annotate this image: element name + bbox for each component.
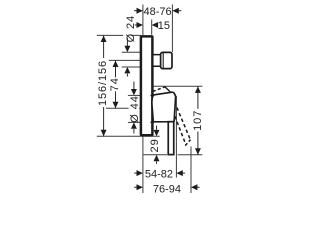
dim 76-94: right arrow (191, 184, 197, 190)
knob centerline (y=60.4) (109, 59, 142, 61)
arrow 107 bottom (195, 148, 201, 154)
lever bottom extension line (y=154.8) (144, 154, 203, 156)
handle base cylinder edges (151, 96, 155, 123)
arrow 29 bottom (pointing up) (154, 155, 160, 161)
knob body (diverter knob) (161, 52, 172, 68)
handle centerline (y=108.3) (106, 107, 142, 109)
svg-text:76-94: 76-94 (153, 183, 181, 195)
lever bar (168, 122, 174, 155)
escutcheon plate (side view) (141, 36, 153, 135)
svg-text:15: 15 (158, 20, 170, 32)
dim 15: left arrow (137, 22, 143, 28)
arrow Ø44 top (pointing down) (131, 89, 137, 95)
dim 76-94: left arrow tail (134, 186, 136, 188)
handle body bottom extension line (y=122.4) (128, 121, 142, 123)
dimension line 74 (x=115.5) (115, 60, 117, 108)
dim 48-76: right arrow tail (179, 10, 182, 12)
svg-text:29: 29 (149, 138, 161, 152)
dim 76-94: left arrow (137, 184, 143, 190)
arrow Ø24 bottom (pointing up) (124, 67, 130, 73)
dim 54-82: right arrow (176, 170, 182, 176)
dimension line 107 (x=197.9) (197, 86, 199, 155)
dimension line Ø44 (x=133.9) (133, 82, 135, 134)
grip top right diagonal (165, 87, 171, 93)
knob ring line (162, 53, 164, 69)
handle body top extension line (y=95.4) (128, 94, 142, 96)
extension line 54-82 right / lever (x=176.4) (175, 96, 177, 178)
arrow Ø44 bottom (pointing up) (131, 122, 137, 128)
svg-text:74: 74 (109, 77, 121, 91)
arrow 107 top (195, 87, 201, 93)
svg-text:107: 107 (192, 110, 204, 131)
dim 15: left arrow tail (135, 24, 137, 26)
extension line 76-94 right (x=190.6) (190, 147, 192, 194)
handle grip body (152, 92, 176, 122)
arrow 74 top (113, 61, 119, 67)
dim 48-76: left arrow tail (134, 10, 137, 12)
dimension line 156/156 (x=103.6) (103, 35, 105, 136)
extension line 15 (x=152.1) (151, 20, 153, 35)
dimension line Ø24 (x=127.4) (126, 38, 128, 77)
plate bottom extension line (y=136.3) (97, 135, 160, 137)
arrow 156/156 bottom (101, 130, 107, 136)
dim 48-76: left arrow (137, 8, 143, 14)
dim 54-82: left arrow tail (134, 172, 136, 174)
dashed lever tip cap (185, 140, 190, 146)
dim 48-76: right arrow (172, 8, 178, 14)
svg-text:156/156: 156/156 (97, 60, 109, 106)
dimension line 29 (x=156.5) (156, 126, 158, 164)
dim 54-82: right arrow tail (183, 172, 186, 174)
arrow 29 top (pointing down) (154, 130, 160, 136)
dashed lever alternate position left edge (175, 116, 186, 145)
svg-text:Ø 44: Ø 44 (129, 95, 141, 122)
svg-text:54-82: 54-82 (145, 168, 173, 180)
arrow 156/156 top (101, 36, 107, 42)
dashed grip top (alternate position) (153, 87, 165, 92)
arrow Ø24 top (pointing down) (124, 46, 130, 52)
arrow 74 bottom (113, 102, 119, 108)
dim 76-94: right arrow tail (197, 186, 200, 188)
svg-text:Ø 24: Ø 24 (125, 15, 137, 42)
extension line 48-76 right / knob face (x=172.5) (171, 5, 173, 53)
dim 15: right arrow (152, 22, 158, 28)
plate top extension line (y=35.4) (97, 34, 141, 36)
dim 54-82: left arrow (137, 170, 143, 176)
grip top extension line (y=86.3) (150, 85, 202, 87)
knob top extension line (y=52.3) (122, 51, 143, 53)
wall extension line (left, x=142.9) (142, 5, 144, 194)
dashed lever alternate position right edge (177, 108, 190, 139)
svg-text:48-76: 48-76 (144, 6, 172, 18)
knob neck (153, 55, 161, 67)
knob bottom extension line (y=67.0) (122, 66, 143, 68)
